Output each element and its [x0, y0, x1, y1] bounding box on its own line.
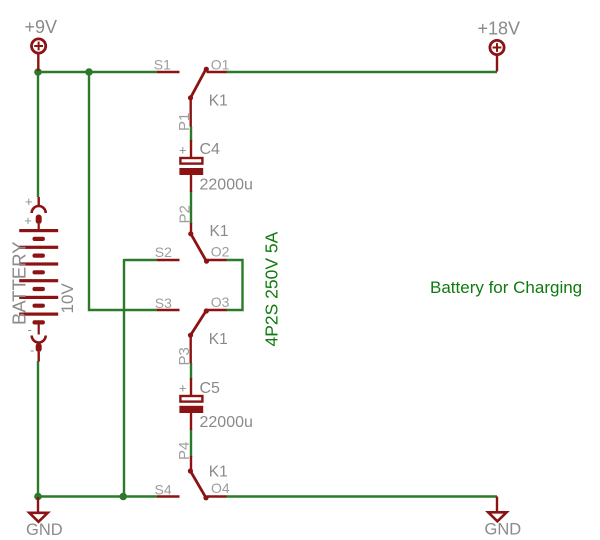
svg-text:-: -	[30, 343, 34, 358]
svg-text:+: +	[179, 143, 187, 158]
switch K1 contact 1 (S1/O1/P1)	[157, 67, 227, 127]
svg-text:+9V: +9V	[25, 17, 58, 37]
svg-text:BATTERY: BATTERY	[9, 241, 30, 325]
wire SW3 pin to C5	[190, 363, 192, 379]
wire top rail left (+9V net)	[38, 71, 157, 73]
svg-text:S3: S3	[155, 295, 172, 311]
svg-text:O2: O2	[211, 244, 230, 260]
svg-text:O3: O3	[211, 294, 230, 310]
svg-text:S1: S1	[154, 57, 171, 73]
wire left vertical battery bottom	[37, 361, 39, 497]
wire C4 to SW2 pin	[190, 191, 192, 224]
wire bottom rail right	[226, 495, 497, 497]
junction top rail at battery	[34, 68, 42, 76]
junction bottom rail at battery	[34, 493, 42, 501]
supply symbol +9V	[31, 39, 45, 71]
junction bottom rail at x124	[119, 493, 127, 501]
junction top rail at x89	[85, 68, 93, 76]
wire x124 vertical S2 to bottom rail	[123, 259, 125, 497]
capacitor C4	[179, 140, 203, 192]
battery BATTERY 10V	[19, 197, 58, 362]
svg-text:K1: K1	[210, 223, 229, 240]
svg-text:22000u: 22000u	[200, 414, 253, 431]
svg-text:K1: K1	[209, 331, 228, 348]
wire O2 to O3 right loop	[226, 260, 243, 310]
svg-text:10V: 10V	[58, 283, 77, 314]
svg-text:O4: O4	[211, 480, 230, 496]
switch K1 contact 2 (S2/O2/P2)	[157, 223, 227, 264]
svg-text:GND: GND	[485, 521, 522, 539]
switch K1 contact 3 (S3/O3/P3)	[157, 308, 227, 363]
wire top rail right (O1 to +18V)	[226, 71, 497, 73]
wire left vertical battery top	[37, 72, 39, 197]
svg-text:+: +	[24, 213, 32, 228]
svg-text:K1: K1	[209, 463, 228, 480]
svg-text:P2: P2	[177, 205, 194, 223]
ground symbol GND left	[29, 497, 47, 522]
svg-text:+: +	[25, 194, 33, 209]
wire SW1 pin to C4	[190, 126, 192, 141]
svg-text:O1: O1	[211, 56, 230, 72]
svg-text:22000u: 22000u	[200, 177, 253, 194]
svg-text:+: +	[179, 381, 187, 396]
supply symbol +18V	[490, 40, 504, 71]
svg-text:+18V: +18V	[478, 19, 521, 39]
svg-text:P4: P4	[176, 442, 193, 460]
switch K1 contact 4 (S4/O4/P4)	[157, 456, 227, 500]
svg-text:GND: GND	[26, 521, 63, 539]
svg-text:P3: P3	[176, 347, 193, 365]
svg-text:P1: P1	[176, 113, 193, 131]
wire C5 to SW4 pin	[190, 429, 192, 457]
svg-text:S4: S4	[155, 482, 172, 498]
svg-text:C4: C4	[200, 141, 221, 158]
capacitor C5	[179, 378, 203, 430]
svg-text:Battery for Charging: Battery for Charging	[430, 278, 582, 297]
svg-text:C5: C5	[200, 380, 221, 397]
ground symbol GND right	[488, 497, 506, 522]
wire x89 vertical to S3 row	[89, 72, 157, 310]
wire S2 row left	[124, 259, 157, 261]
svg-text:S2: S2	[155, 244, 172, 260]
svg-text:4P2S 250V 5A: 4P2S 250V 5A	[262, 231, 282, 346]
svg-text:K1: K1	[209, 92, 228, 109]
wire bottom rail left (GND net)	[38, 495, 157, 497]
